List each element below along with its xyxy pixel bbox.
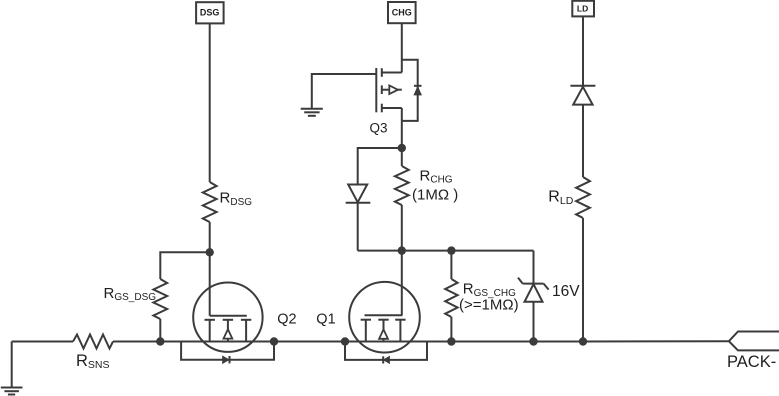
- transistor Q1 body arrow leg: [383, 320, 385, 330]
- resistor RLD: [576, 177, 590, 218]
- node N1 junction (RGS_DSG to rail): [156, 337, 164, 345]
- wire D3 to RLD: [582, 105, 584, 177]
- resistor RGS_DSG: [153, 279, 167, 319]
- resistor RDSG: [203, 182, 217, 222]
- diode D3: [570, 86, 595, 105]
- wire RGS_CHG to node N4: [450, 317, 452, 342]
- wire ground to RSNS: [12, 341, 73, 343]
- terminal DSG: [196, 2, 224, 23]
- svg-text:16V: 16V: [552, 283, 580, 300]
- transistor Q3 body arrow to source rail: [398, 89, 402, 91]
- wire node N6 to PACK- terminal: [583, 340, 729, 342]
- transistor Q2 body arrow triangle: [224, 329, 233, 338]
- svg-text:(>=1MΩ): (>=1MΩ): [459, 297, 519, 314]
- transistor Q1 gate plate: [365, 314, 403, 316]
- node A junction (DSG gate node): [206, 248, 214, 256]
- wire Q3 source to node B: [401, 108, 403, 148]
- svg-text:Q1: Q1: [316, 311, 335, 327]
- transistor Q3 channel bar bottom: [381, 104, 383, 113]
- wire node B to RCHG: [401, 148, 403, 166]
- wire DSG to RDSG: [209, 23, 211, 182]
- transistor Q1 channel bar middle: [378, 319, 388, 321]
- node N6 junction (RLD bottom): [579, 337, 587, 345]
- transistor Q3 channel bar top: [381, 68, 383, 77]
- wire node C row (D1 to zener): [358, 250, 534, 252]
- transistor Q2 right leg: [245, 320, 247, 342]
- svg-text:CHG: CHG: [392, 8, 412, 18]
- svg-text:RSNS: RSNS: [76, 352, 110, 371]
- wire Q1 body diode loop: [345, 342, 427, 360]
- transistor Q2 gate plate: [210, 315, 247, 317]
- wire zener D2 to node N5: [533, 302, 535, 342]
- transistor Q2 gate wire from node A: [209, 252, 211, 315]
- transistor Q1 body circle: [349, 282, 420, 353]
- diode Q2 body diode: [223, 356, 230, 363]
- svg-text:Q3: Q3: [370, 121, 388, 136]
- wire node N3 to node N4 (through Q1 legs): [345, 341, 451, 343]
- transistor Q2 body arrow leg: [227, 320, 229, 330]
- svg-text:RGS_DSG: RGS_DSG: [104, 285, 157, 303]
- wire RLD to node N6: [582, 218, 584, 342]
- svg-text:RCHG: RCHG: [420, 168, 453, 186]
- transistor Q3 channel bar middle: [381, 85, 383, 94]
- diode Q1 body diode: [383, 356, 389, 363]
- svg-text:DSG: DSG: [200, 8, 220, 18]
- transistor Q2 channel bar left: [205, 319, 215, 321]
- wire node B to diode D1: [358, 148, 402, 185]
- node C junction (RCHG bottom / Q1 gate): [398, 246, 406, 254]
- wire node N4 to node N5: [451, 341, 533, 343]
- node N3 junction (Q1 left leg): [341, 337, 349, 345]
- transistor Q1 channel bar right: [395, 319, 405, 321]
- wire node C row to zener D2: [533, 251, 535, 284]
- wire RDSG to node A: [209, 222, 211, 252]
- wire RCHG to node C: [401, 205, 403, 251]
- transistor Q2 channel bar right: [241, 319, 251, 321]
- transistor Q1 right leg: [399, 320, 401, 342]
- wire node N2 to node N3: [274, 341, 345, 343]
- node B junction (Q3 source / RCHG / D1): [398, 144, 406, 152]
- node N5 junction (zener anode): [529, 337, 537, 345]
- transistor Q1 left leg: [365, 320, 367, 342]
- wire node D to RGS_CHG: [450, 251, 452, 279]
- transistor Q3 body arrow triangle: [389, 85, 398, 94]
- transistor Q1 channel bar left: [361, 319, 371, 321]
- diode Q3 body diode: [414, 86, 422, 95]
- wire LD to diode D3: [582, 16, 584, 85]
- transistor Q1 body arrow triangle: [379, 329, 388, 338]
- svg-text:RDSG: RDSG: [220, 190, 253, 208]
- transistor Q2 body arrow to rail: [227, 339, 229, 342]
- resistor RSNS: [73, 335, 113, 349]
- wire Q3 gate to ground: [312, 74, 377, 109]
- terminal LD: [572, 1, 594, 17]
- transistor Q3 source connection: [382, 107, 402, 109]
- wire Q3 body diode loop: [402, 60, 418, 121]
- node N4 junction (RGS_CHG bottom): [447, 337, 455, 345]
- node N2 junction (Q2 right leg): [270, 337, 278, 345]
- transistor Q3 gate plate: [375, 68, 377, 112]
- node D junction (RGS_CHG top): [447, 246, 455, 254]
- resistor RCHG: [395, 166, 409, 205]
- svg-text:(1MΩ ): (1MΩ ): [412, 186, 458, 203]
- svg-text:Q2: Q2: [277, 311, 296, 327]
- zener diode D2: [518, 278, 549, 302]
- transistor Q1 gate wire from node C: [401, 251, 403, 316]
- svg-text:PACK-: PACK-: [727, 353, 776, 371]
- transistor Q2 channel bar middle: [223, 319, 233, 321]
- wire node N1 to node N2 (through Q2 source/drain legs): [160, 341, 274, 343]
- ground (top, CHG gate): [301, 109, 323, 116]
- wire CHG to Q3 drain: [401, 23, 403, 72]
- wire node N5 to node N6: [534, 341, 584, 343]
- ground (left, battery sense return): [1, 342, 23, 395]
- wire RSNS to node N1: [113, 341, 160, 343]
- transistor Q1 body arrow to rail: [383, 339, 385, 342]
- transistor Q2 left leg: [209, 320, 211, 342]
- terminal PACK-: [729, 332, 779, 351]
- resistor RGS_CHG: [445, 279, 457, 317]
- wire node A to RGS_DSG: [160, 252, 209, 279]
- transistor Q3 drain connection: [382, 72, 402, 74]
- terminal CHG: [388, 2, 416, 23]
- transistor Q2 body circle: [193, 283, 262, 352]
- transistor Q3 body arrow lead: [382, 89, 390, 91]
- wire D1 to node C: [357, 203, 359, 251]
- svg-text:RLD: RLD: [548, 189, 573, 207]
- wire Q2 body diode loop: [181, 342, 274, 360]
- wire RGS_DSG to node N1: [159, 319, 161, 342]
- diode D1: [346, 185, 371, 203]
- svg-text:LD: LD: [577, 4, 588, 14]
